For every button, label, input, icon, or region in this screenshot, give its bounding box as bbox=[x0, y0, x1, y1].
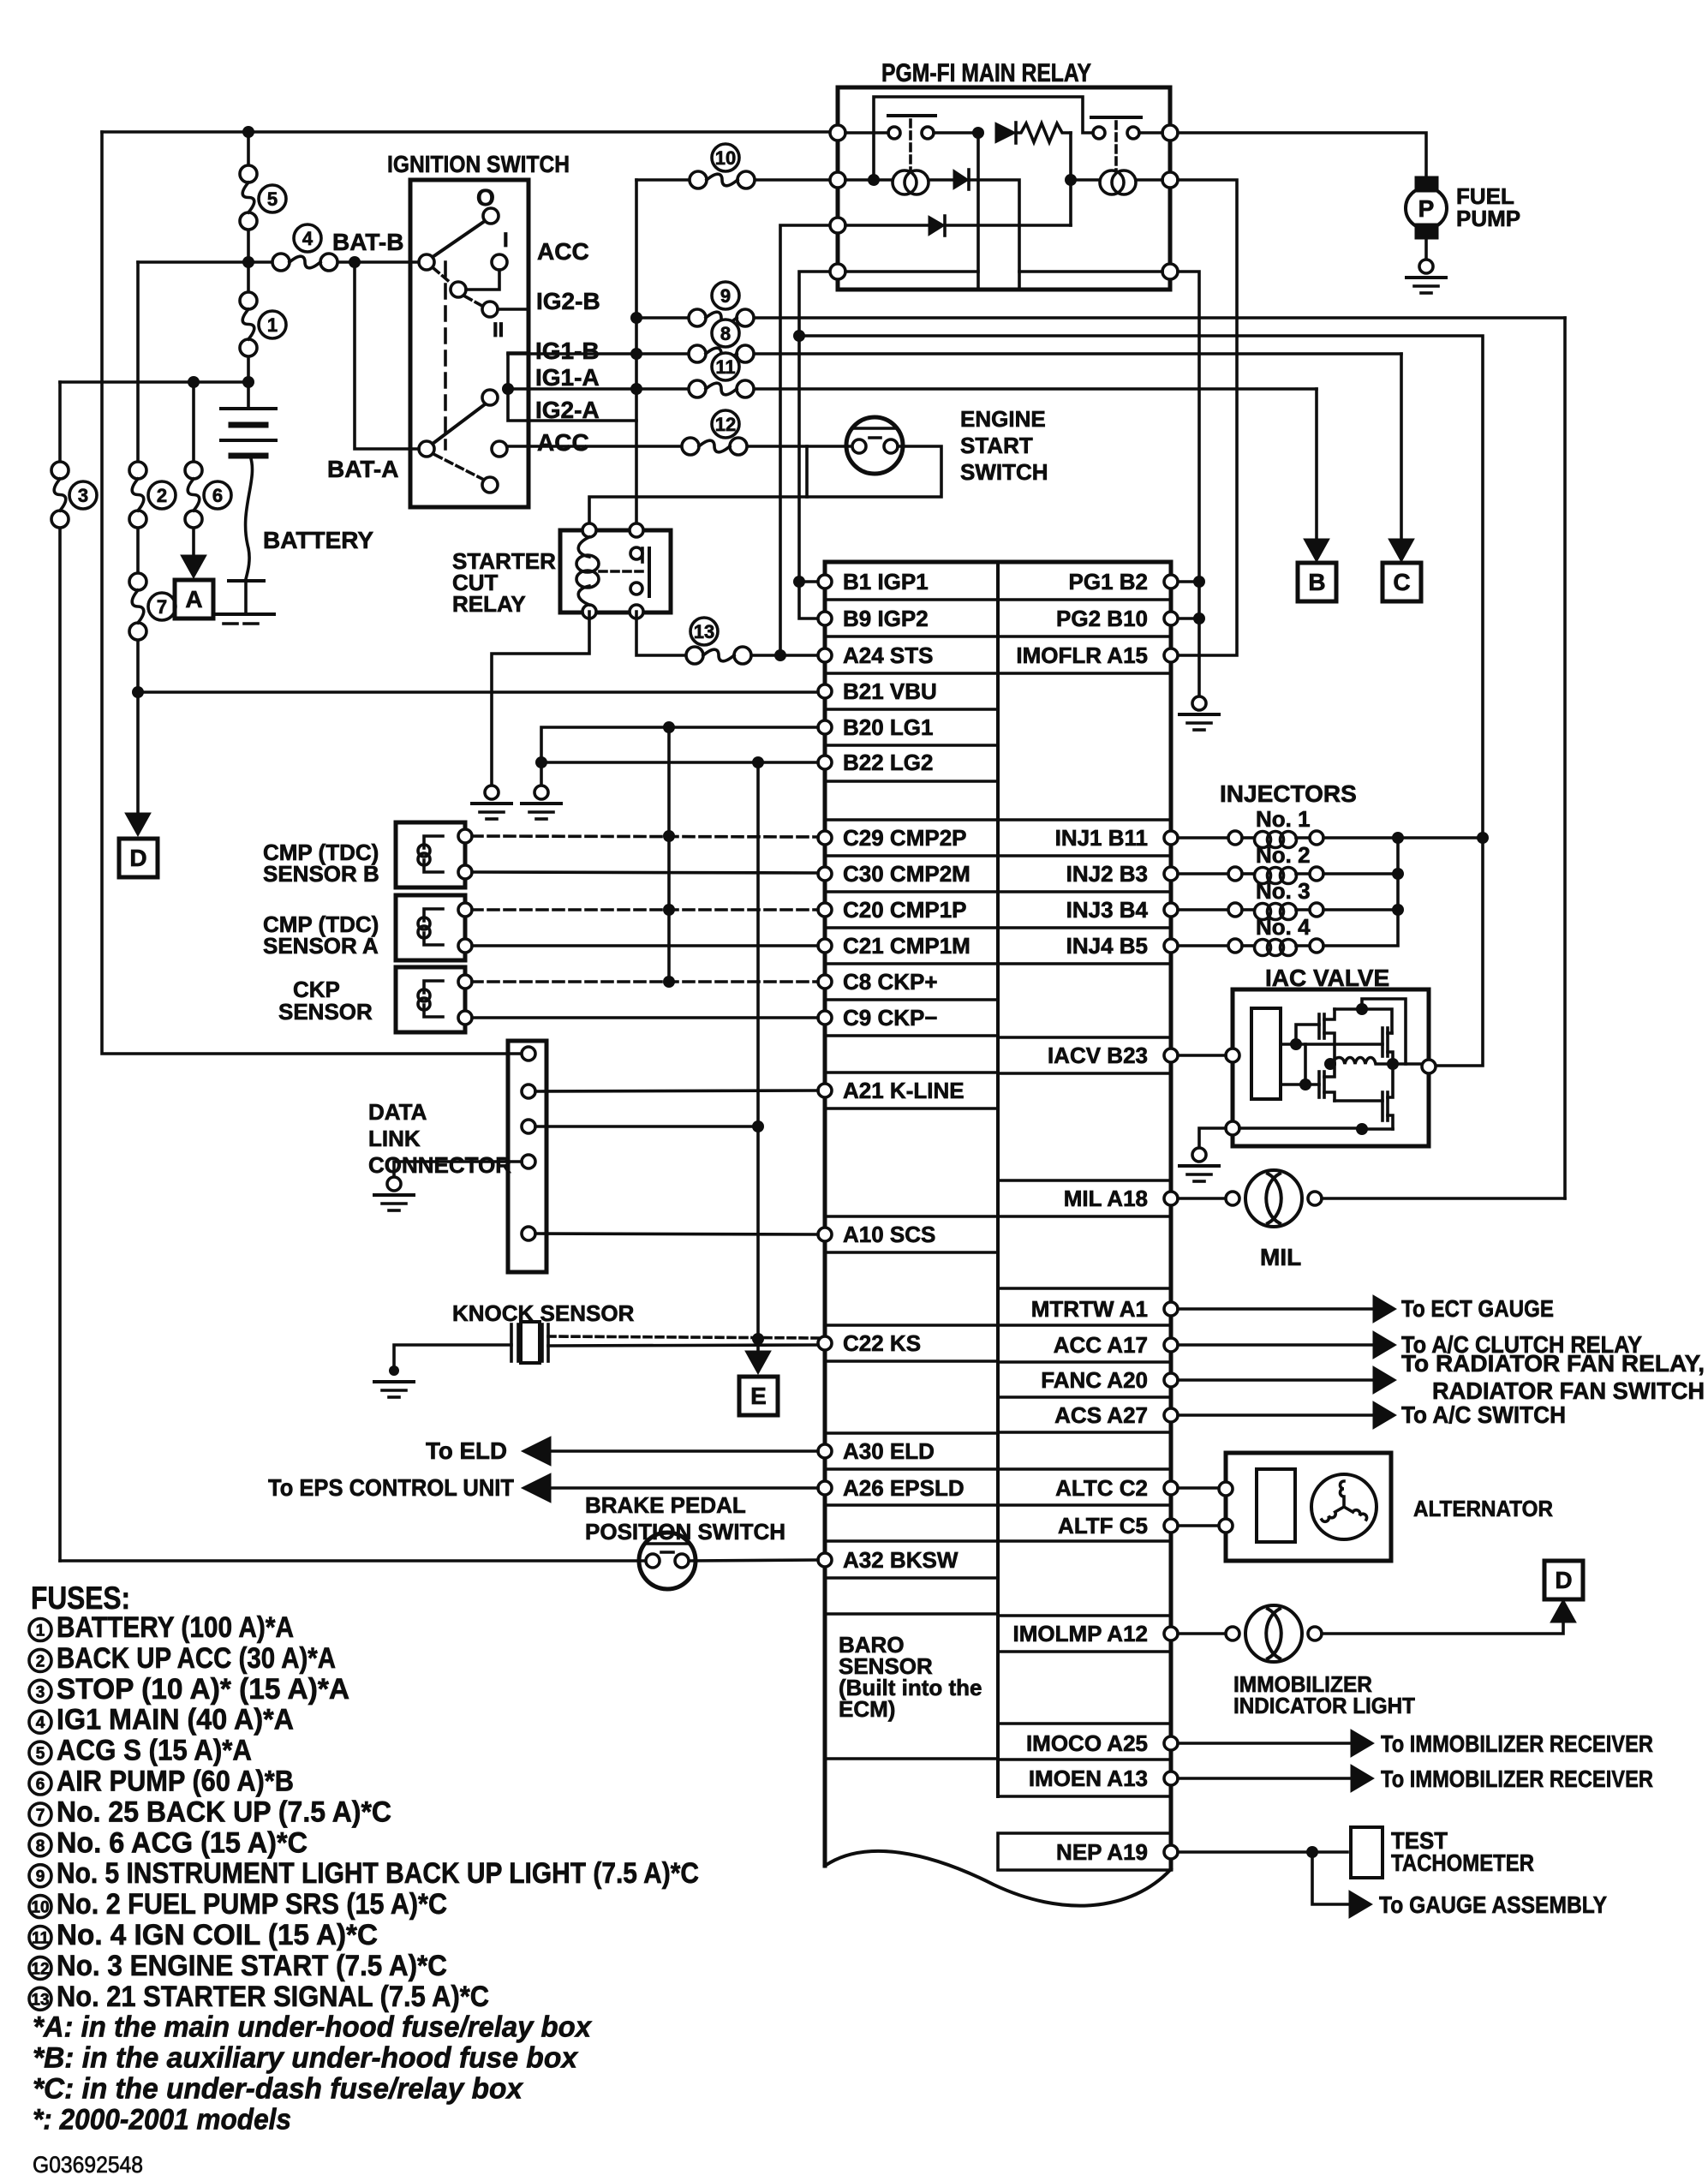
data link connector pins bbox=[522, 1047, 535, 1240]
svg-text:No. 25 BACK UP (7.5 A)*C: No. 25 BACK UP (7.5 A)*C bbox=[57, 1796, 391, 1828]
svg-text:P: P bbox=[1418, 195, 1435, 222]
label I and II bbox=[493, 229, 509, 342]
svg-text:B9 IGP2: B9 IGP2 bbox=[843, 606, 929, 631]
wire brake pedal position switch line bbox=[60, 1560, 818, 1561]
label FUEL PUMP bbox=[1456, 183, 1520, 231]
relay coil 2 bbox=[1071, 170, 1162, 194]
svg-text:ACC A17: ACC A17 bbox=[1054, 1332, 1148, 1358]
fuse 3 STOP (vertical) bbox=[51, 462, 69, 528]
fuse list item 9 bbox=[29, 1857, 699, 1890]
wire B21 VBU back-up power bbox=[138, 690, 818, 694]
svg-text:I: I bbox=[503, 229, 509, 252]
IAC valve internal circuit bbox=[1239, 999, 1422, 1135]
ECM left pin labels bbox=[843, 569, 970, 1573]
svg-text:To IMMOBILIZER RECEIVER: To IMMOBILIZER RECEIVER bbox=[1381, 1730, 1653, 1757]
starter cut relay pins bbox=[582, 523, 643, 618]
svg-text:11: 11 bbox=[715, 356, 735, 378]
svg-text:No. 4 IGN COIL (15 A)*C: No. 4 IGN COIL (15 A)*C bbox=[57, 1919, 378, 1951]
svg-text:ALTC C2: ALTC C2 bbox=[1055, 1475, 1148, 1501]
arrow into connector E bbox=[745, 1339, 771, 1374]
svg-text:7: 7 bbox=[36, 1807, 45, 1825]
fuse list item 13 bbox=[29, 1981, 489, 2013]
relay terminals right bbox=[1162, 125, 1178, 279]
label ACC (lower) bbox=[537, 429, 589, 456]
svg-text:BRAKE PEDAL: BRAKE PEDAL bbox=[585, 1492, 746, 1518]
svg-text:C29 CMP2P: C29 CMP2P bbox=[843, 825, 967, 851]
wire IG1-B / fuse 8 line bbox=[508, 352, 1401, 356]
label IMMOBILIZER INDICATOR LIGHT bbox=[1233, 1671, 1415, 1718]
svg-text:C: C bbox=[1393, 569, 1410, 595]
footnote *A: bbox=[33, 2011, 593, 2044]
svg-text:6: 6 bbox=[212, 485, 223, 506]
svg-text:STOP (10 A)* (15 A)*A: STOP (10 A)* (15 A)*A bbox=[57, 1673, 349, 1706]
wire logic ground vertical to DLC and knock shield bbox=[752, 762, 764, 1345]
alternator 3-phase symbol bbox=[1311, 1474, 1377, 1539]
fuse list item 5 bbox=[29, 1735, 252, 1767]
svg-text:ACG S (15 A)*A: ACG S (15 A)*A bbox=[57, 1735, 252, 1767]
svg-text:*C: in the under-dash fuse/rel: *C: in the under-dash fuse/relay box bbox=[33, 2073, 524, 2106]
svg-text:2: 2 bbox=[36, 1652, 45, 1670]
wire CMP1M bbox=[472, 944, 818, 947]
svg-text:PG1 B2: PG1 B2 bbox=[1069, 569, 1149, 595]
data link connector box bbox=[508, 1041, 546, 1272]
ground (IAC valve) bbox=[1179, 1148, 1219, 1181]
relay diode 3 (terminal 3 line) bbox=[845, 216, 1071, 236]
svg-text:To A/C SWITCH: To A/C SWITCH bbox=[1401, 1401, 1566, 1428]
wire CMP2M bbox=[472, 872, 818, 873]
engine start switch bbox=[846, 417, 903, 474]
wire CMP2P shielded (dashed) bbox=[472, 830, 818, 842]
wire lamp to connector D bbox=[1322, 1599, 1576, 1634]
wire engine start switch return loop bbox=[589, 446, 941, 523]
wire PG1 B2 to ground bus bbox=[1178, 580, 1199, 583]
relay contact 1 (left) bbox=[845, 116, 978, 171]
svg-text:No. 21 STARTER SIGNAL (7.5 A)*: No. 21 STARTER SIGNAL (7.5 A)*C bbox=[57, 1981, 489, 2013]
connector D (from fuse 7) bbox=[119, 839, 158, 877]
svg-text:3: 3 bbox=[78, 485, 88, 506]
wire DLC SCS to A10 bbox=[535, 1234, 818, 1234]
svg-text:PUMP: PUMP bbox=[1456, 206, 1520, 231]
injector No. 4 bbox=[1178, 914, 1323, 956]
wire battery top bus bbox=[60, 376, 254, 409]
battery negative terminal / chassis link bbox=[217, 581, 274, 624]
svg-text:C8 CKP+: C8 CKP+ bbox=[843, 969, 938, 995]
injector No. 1 bbox=[1178, 806, 1323, 848]
svg-text:SENSOR B: SENSOR B bbox=[263, 861, 379, 887]
fuse number 2 label bbox=[148, 481, 176, 509]
wire ALTF C5 to alternator bbox=[1178, 1524, 1219, 1527]
svg-text:SENSOR: SENSOR bbox=[278, 999, 373, 1025]
svg-text:5: 5 bbox=[36, 1745, 45, 1763]
fuse number 6 label bbox=[204, 481, 231, 509]
svg-text:To EPS CONTROL UNIT: To EPS CONTROL UNIT bbox=[268, 1474, 514, 1501]
wire IMOEN A13 to immobilizer receiver bbox=[1178, 1765, 1653, 1792]
ECM right pin labels bbox=[1013, 569, 1149, 1865]
svg-text:4: 4 bbox=[36, 1714, 45, 1732]
IAC valve box bbox=[1233, 989, 1429, 1146]
label BAT-A bbox=[327, 456, 398, 482]
label MIL bbox=[1260, 1244, 1301, 1270]
label IG2-B bbox=[536, 288, 600, 314]
wire IAC valve to ground bbox=[1199, 1128, 1226, 1148]
wire DLC pin4 to ground bbox=[394, 1162, 522, 1177]
wire MIL A18 to lamp bbox=[1178, 1197, 1226, 1200]
fuse list item 10 bbox=[29, 1888, 447, 1921]
wire IG2-A jog to starter-cut vertical bbox=[529, 419, 636, 422]
svg-text:IG1 MAIN (40 A)*A: IG1 MAIN (40 A)*A bbox=[57, 1704, 294, 1736]
label IGNITION SWITCH bbox=[387, 151, 570, 177]
fuse list item 1 bbox=[29, 1611, 294, 1644]
label PGM-FI MAIN RELAY bbox=[881, 59, 1091, 87]
ECM left pins bbox=[818, 575, 832, 1567]
knock sensor element bbox=[511, 1322, 548, 1363]
svg-text:10: 10 bbox=[715, 147, 736, 169]
CMP (TDC) sensor A bbox=[396, 895, 465, 960]
connector C bbox=[1383, 563, 1421, 601]
fuse 9 No.5 INSTRUMENT LIGHT bbox=[689, 309, 754, 326]
svg-text:12: 12 bbox=[715, 414, 736, 435]
svg-text:MIL: MIL bbox=[1260, 1244, 1301, 1270]
relay contact 2 (right) bbox=[1091, 117, 1162, 171]
brake pedal position switch bbox=[639, 1533, 696, 1589]
wire relay terminal2 to IMOFLR A15 bbox=[1178, 180, 1237, 655]
wire B20 LG1 to ground bbox=[535, 727, 818, 785]
test tachometer bbox=[1351, 1827, 1534, 1878]
svg-text:KNOCK SENSOR: KNOCK SENSOR bbox=[452, 1300, 635, 1326]
wire DLC K-line to A21 bbox=[535, 1090, 818, 1091]
label STARTER CUT RELAY bbox=[452, 548, 556, 617]
wire battery-voltage feed to data link connector bbox=[102, 132, 522, 1054]
svg-text:B21 VBU: B21 VBU bbox=[843, 678, 937, 704]
fuse 11 No.4 IGN COIL bbox=[689, 380, 754, 397]
connector E bbox=[739, 1377, 778, 1415]
fuse 10 No.2 FUEL PUMP SRS bbox=[690, 171, 755, 188]
svg-text:ALTERNATOR: ALTERNATOR bbox=[1413, 1496, 1553, 1521]
fuse list item 4 bbox=[29, 1704, 294, 1736]
arrow into connector C bbox=[1388, 539, 1414, 562]
ground (ECM PG1/PG2) bbox=[1179, 696, 1219, 730]
svg-text:IMOLMP A12: IMOLMP A12 bbox=[1013, 1621, 1148, 1646]
svg-text:O: O bbox=[476, 184, 495, 211]
fuse number 9 label bbox=[712, 282, 739, 309]
fuse 13 No.21 STARTER SIGNAL bbox=[686, 647, 751, 664]
starter cut relay box bbox=[560, 530, 671, 612]
svg-text:LINK: LINK bbox=[368, 1126, 421, 1151]
wire FANC A20 to radiator fan relay bbox=[1178, 1350, 1705, 1404]
wire IMOCO A25 to immobilizer receiver bbox=[1178, 1730, 1653, 1757]
fuse list item 11 bbox=[29, 1919, 378, 1951]
svg-text:BAT-A: BAT-A bbox=[327, 456, 398, 482]
svg-text:TACHOMETER: TACHOMETER bbox=[1391, 1849, 1534, 1876]
footnote *B: bbox=[33, 2042, 579, 2075]
wire DLC pin3 to logic ground net bbox=[535, 1125, 758, 1128]
svg-text:B1 IGP1: B1 IGP1 bbox=[843, 569, 929, 595]
ignition switch BAT-B contact bbox=[419, 254, 434, 270]
wire ACC / fuse 12 line to engine start switch bbox=[507, 445, 852, 448]
svg-text:C30 CMP2M: C30 CMP2M bbox=[843, 861, 970, 887]
wire NEP A19 to test tachometer bbox=[1178, 1846, 1347, 1858]
fuse 4 IG1 MAIN bbox=[272, 254, 337, 271]
label IG1-B bbox=[535, 338, 600, 364]
IAC valve driver block bbox=[1251, 1008, 1281, 1099]
svg-text:IMOCO A25: IMOCO A25 bbox=[1026, 1730, 1148, 1756]
connector B bbox=[1298, 563, 1336, 601]
wire back-up acc / No.25 branch bbox=[132, 262, 144, 814]
svg-text:C21 CMP1M: C21 CMP1M bbox=[843, 933, 970, 959]
wire relay terminal4-right to ECM power grounds bbox=[1178, 272, 1205, 696]
svg-text:13: 13 bbox=[694, 621, 714, 642]
wire BAT-A feed bbox=[355, 262, 419, 449]
fuse 1 BATTERY (vertical) bbox=[240, 292, 257, 356]
svg-text:BATTERY: BATTERY bbox=[263, 527, 373, 553]
label BARO SENSOR (built into ECM) bbox=[839, 1632, 982, 1722]
wire B1 IGP1 stub bbox=[799, 580, 818, 583]
arrow into connector D (left) bbox=[125, 813, 151, 836]
svg-text:IMOEN A13: IMOEN A13 bbox=[1029, 1766, 1148, 1791]
ignition switch box bbox=[410, 180, 529, 507]
svg-text:INJ1 B11: INJ1 B11 bbox=[1055, 825, 1148, 851]
svg-text:RADIATOR FAN SWITCH: RADIATOR FAN SWITCH bbox=[1432, 1377, 1705, 1404]
svg-text:ACC: ACC bbox=[537, 238, 589, 265]
arrow into connector B bbox=[1304, 539, 1329, 562]
svg-text:C22 KS: C22 KS bbox=[843, 1330, 921, 1356]
wire relay terminal4-left to ECM IGP1/IGP2 bbox=[793, 272, 828, 618]
wire ALTC C2 to alternator bbox=[1178, 1486, 1219, 1490]
ground (starter cut relay) bbox=[472, 786, 511, 819]
relay diode 1 and resistor bbox=[972, 122, 1077, 225]
label ALTERNATOR bbox=[1413, 1496, 1553, 1521]
svg-text:B: B bbox=[1308, 569, 1325, 595]
svg-text:2: 2 bbox=[157, 485, 167, 506]
svg-text:IG1-A: IG1-A bbox=[535, 364, 600, 391]
svg-text:INJECTORS: INJECTORS bbox=[1220, 780, 1357, 807]
svg-text:5: 5 bbox=[267, 188, 278, 210]
wire fuse 13 line to A24 STS bbox=[636, 612, 818, 661]
wire relay output to fuel pump bbox=[1178, 133, 1426, 176]
label ACC (upper) bbox=[537, 238, 589, 265]
wire IACV B23 to IAC valve bbox=[1178, 1054, 1226, 1057]
wire fuse5 branch down bbox=[247, 132, 250, 262]
footnote *C: bbox=[33, 2073, 524, 2106]
svg-text:SWITCH: SWITCH bbox=[960, 459, 1048, 485]
wire injector common bus bbox=[1323, 832, 1483, 946]
wire knock sensor signal to C22 KS bbox=[548, 1345, 818, 1346]
relay terminal 4 internal wires bbox=[845, 133, 1162, 290]
relay terminals left bbox=[830, 125, 845, 279]
wire air pump fuse branch bbox=[192, 382, 195, 556]
ground (knock sensor) bbox=[374, 1365, 414, 1397]
fuse 12 No.3 ENGINE START bbox=[682, 438, 747, 455]
wire relay branch to injector resistor bus bbox=[799, 336, 1489, 1066]
wire ACC A17 to A/C clutch relay bbox=[1178, 1331, 1642, 1359]
fuse list item 12 bbox=[29, 1950, 447, 1982]
fuse 7 No.25 BACK UP (vertical) bbox=[129, 573, 146, 640]
svg-text:ENGINE: ENGINE bbox=[960, 406, 1046, 432]
label IG1-A bbox=[535, 364, 600, 391]
wire IG1-A / fuse 11 line bbox=[508, 387, 1317, 391]
wire fuse1 branch bbox=[247, 262, 250, 382]
label IAC VALVE bbox=[1265, 965, 1389, 991]
svg-text:DATA: DATA bbox=[368, 1099, 427, 1125]
svg-text:PGM-FI MAIN RELAY: PGM-FI MAIN RELAY bbox=[881, 59, 1091, 87]
wire A30 ELD to ELD bbox=[522, 1437, 818, 1466]
ECM NEP A19 cell bbox=[998, 1833, 1171, 1870]
svg-text:CONNECTOR: CONNECTOR bbox=[368, 1152, 511, 1178]
svg-text:A26 EPSLD: A26 EPSLD bbox=[843, 1475, 964, 1501]
svg-text:4: 4 bbox=[302, 228, 314, 249]
fuse 6 AIR PUMP (vertical) bbox=[185, 462, 202, 528]
fuse number 10 label bbox=[712, 144, 739, 171]
svg-text:A30 ELD: A30 ELD bbox=[843, 1438, 935, 1464]
svg-text:A10 SCS: A10 SCS bbox=[843, 1222, 935, 1247]
injector No. 3 bbox=[1178, 878, 1323, 920]
svg-text:7: 7 bbox=[157, 596, 167, 618]
svg-text:No. 2 FUEL PUMP SRS (15 A)*C: No. 2 FUEL PUMP SRS (15 A)*C bbox=[57, 1888, 447, 1921]
wire CMP1P shielded (dashed) bbox=[472, 904, 818, 916]
svg-text:RELAY: RELAY bbox=[452, 591, 526, 617]
ground (data link connector) bbox=[374, 1177, 414, 1210]
ECM connector table outline bbox=[825, 562, 1171, 1869]
svg-text:6: 6 bbox=[36, 1776, 45, 1794]
fuse list item 6 bbox=[29, 1766, 294, 1798]
label CKP SENSOR bbox=[278, 977, 373, 1025]
CKP sensor bbox=[396, 967, 465, 1032]
sensor pins bbox=[458, 829, 472, 1025]
svg-text:1: 1 bbox=[36, 1622, 45, 1640]
wire ignition feeds vertical (to starter cut relay) bbox=[630, 180, 642, 523]
svg-text:II: II bbox=[493, 319, 504, 342]
fuse number 7 label bbox=[148, 593, 176, 620]
svg-text:START: START bbox=[960, 433, 1033, 458]
svg-text:IACV B23: IACV B23 bbox=[1048, 1043, 1148, 1068]
svg-text:9: 9 bbox=[36, 1868, 45, 1886]
wire NEP to gauge assembly bbox=[1312, 1852, 1607, 1918]
footnote *: bbox=[33, 2103, 291, 2136]
relay coil 1 bbox=[845, 170, 953, 194]
label DATA LINK CONNECTOR bbox=[368, 1099, 511, 1178]
ignition switch arm (lower) bbox=[433, 404, 485, 444]
injector No. 2 bbox=[1178, 842, 1323, 884]
svg-text:8: 8 bbox=[720, 323, 731, 344]
label To EPS CONTROL UNIT bbox=[268, 1474, 514, 1501]
svg-text:BAT-B: BAT-B bbox=[332, 229, 403, 255]
wire PG2 B10 to ground bus bbox=[1178, 617, 1199, 620]
svg-text:A32 BKSW: A32 BKSW bbox=[843, 1547, 959, 1573]
svg-text:C9 CKP−: C9 CKP− bbox=[843, 1005, 938, 1031]
wire BAT-B line bbox=[138, 256, 420, 268]
svg-text:No. 3: No. 3 bbox=[1256, 878, 1311, 904]
fuse 2 BACK UP ACC (vertical) bbox=[129, 462, 146, 528]
wire ACS A27 to A/C switch bbox=[1178, 1401, 1566, 1429]
wire right-side vertical to MIL bbox=[1563, 318, 1567, 1198]
svg-text:BACK UP ACC (30 A)*A: BACK UP ACC (30 A)*A bbox=[57, 1642, 336, 1675]
wire starter cut relay to ground bbox=[492, 612, 589, 785]
fuse number 1 label bbox=[259, 311, 286, 338]
svg-text:No. 4: No. 4 bbox=[1256, 914, 1311, 940]
svg-text:MTRTW A1: MTRTW A1 bbox=[1031, 1296, 1148, 1322]
svg-text:POSITION SWITCH: POSITION SWITCH bbox=[585, 1519, 785, 1545]
svg-text:No. 5 INSTRUMENT LIGHT BACK UP: No. 5 INSTRUMENT LIGHT BACK UP LIGHT (7.… bbox=[57, 1857, 699, 1890]
svg-text:IG2-B: IG2-B bbox=[536, 288, 600, 314]
svg-text:10: 10 bbox=[31, 1899, 49, 1917]
wire stop fuse branch (left) bbox=[58, 382, 62, 1561]
ECM wavy bottom edge bbox=[825, 1851, 1171, 1906]
connector A (air pump) bbox=[175, 580, 213, 618]
svg-text:ECM): ECM) bbox=[839, 1696, 895, 1722]
fuse list item 3 bbox=[29, 1673, 349, 1706]
label To ELD bbox=[426, 1437, 507, 1464]
svg-text:1: 1 bbox=[267, 314, 278, 336]
fuse number 8 label bbox=[712, 320, 739, 347]
svg-text:E: E bbox=[750, 1383, 767, 1409]
figure number G03692548 bbox=[33, 2152, 143, 2178]
svg-text:3: 3 bbox=[36, 1683, 45, 1701]
IAC valve pins bbox=[1226, 1049, 1436, 1135]
wire MTRTW A1 to ECT gauge bbox=[1178, 1295, 1554, 1323]
svg-text:SENSOR A: SENSOR A bbox=[263, 933, 379, 959]
label CMP (TDC) SENSOR B bbox=[263, 840, 379, 887]
CMP (TDC) sensor B bbox=[396, 822, 465, 887]
svg-text:D: D bbox=[129, 845, 146, 871]
svg-text:*: 2000-2001 models: *: 2000-2001 models bbox=[33, 2103, 291, 2136]
svg-text:9: 9 bbox=[720, 285, 731, 307]
starter cut relay coil bbox=[576, 537, 599, 605]
fuse list item 2 bbox=[29, 1642, 336, 1675]
fuse number 13 label bbox=[690, 618, 718, 645]
ignition switch lower arm contacts bbox=[482, 390, 498, 493]
wire CKP+ shielded (dashed) bbox=[472, 976, 818, 988]
wire MIL lamp to instrument feed bbox=[1322, 1197, 1565, 1200]
svg-text:To GAUGE ASSEMBLY: To GAUGE ASSEMBLY bbox=[1379, 1891, 1607, 1918]
label FUSES heading bbox=[31, 1580, 130, 1616]
svg-text:G03692548: G03692548 bbox=[33, 2152, 143, 2178]
wire main battery bus (top) bbox=[102, 130, 836, 134]
fuse number 3 label bbox=[69, 481, 97, 509]
svg-text:*A: in the main under-hood fus: *A: in the main under-hood fuse/relay bo… bbox=[33, 2011, 593, 2044]
svg-text:IMOFLR A15: IMOFLR A15 bbox=[1016, 642, 1148, 668]
ECM right pins bbox=[1164, 575, 1178, 1859]
relay diode 2 (coil line) bbox=[953, 170, 1019, 290]
fuse 8 No.6 ACG bbox=[689, 345, 754, 362]
svg-text:B22 LG2: B22 LG2 bbox=[843, 750, 934, 775]
svg-text:INJ4 B5: INJ4 B5 bbox=[1066, 933, 1148, 959]
svg-text:AIR PUMP (60 A)*B: AIR PUMP (60 A)*B bbox=[57, 1766, 294, 1798]
wire CKP- bbox=[472, 1016, 818, 1019]
label BATTERY bbox=[263, 527, 373, 553]
ignition switch IG2-B contacts bbox=[451, 270, 529, 317]
starter cut relay contact bbox=[600, 548, 649, 596]
svg-text:FANC A20: FANC A20 bbox=[1041, 1367, 1148, 1393]
svg-text:A: A bbox=[185, 586, 202, 612]
MIL lamp bbox=[1226, 1170, 1322, 1227]
fuse list item 7 bbox=[29, 1796, 391, 1828]
wire fuse 10 line to main relay coil bbox=[636, 178, 828, 182]
alternator box bbox=[1219, 1453, 1391, 1561]
fuse number 4 label bbox=[294, 224, 321, 252]
svg-text:IAC VALVE: IAC VALVE bbox=[1265, 965, 1389, 991]
fuse 5 ACG S (vertical) bbox=[240, 165, 257, 230]
fuse number 11 label bbox=[712, 353, 739, 380]
battery symbol bbox=[221, 409, 276, 579]
svg-text:IG1-B: IG1-B bbox=[535, 338, 600, 364]
svg-text:No. 6 ACG (15 A)*C: No. 6 ACG (15 A)*C bbox=[57, 1826, 308, 1859]
svg-text:INDICATOR LIGHT: INDICATOR LIGHT bbox=[1233, 1693, 1415, 1718]
wire knock sensor shield (dashed) bbox=[548, 1336, 821, 1338]
ECM cell borders (right column) bbox=[998, 1037, 1171, 1796]
ground (ECM logic LG1/LG2) bbox=[522, 786, 561, 819]
ignition switch BAT-A contact bbox=[419, 441, 434, 457]
svg-text:A24 STS: A24 STS bbox=[843, 642, 934, 668]
